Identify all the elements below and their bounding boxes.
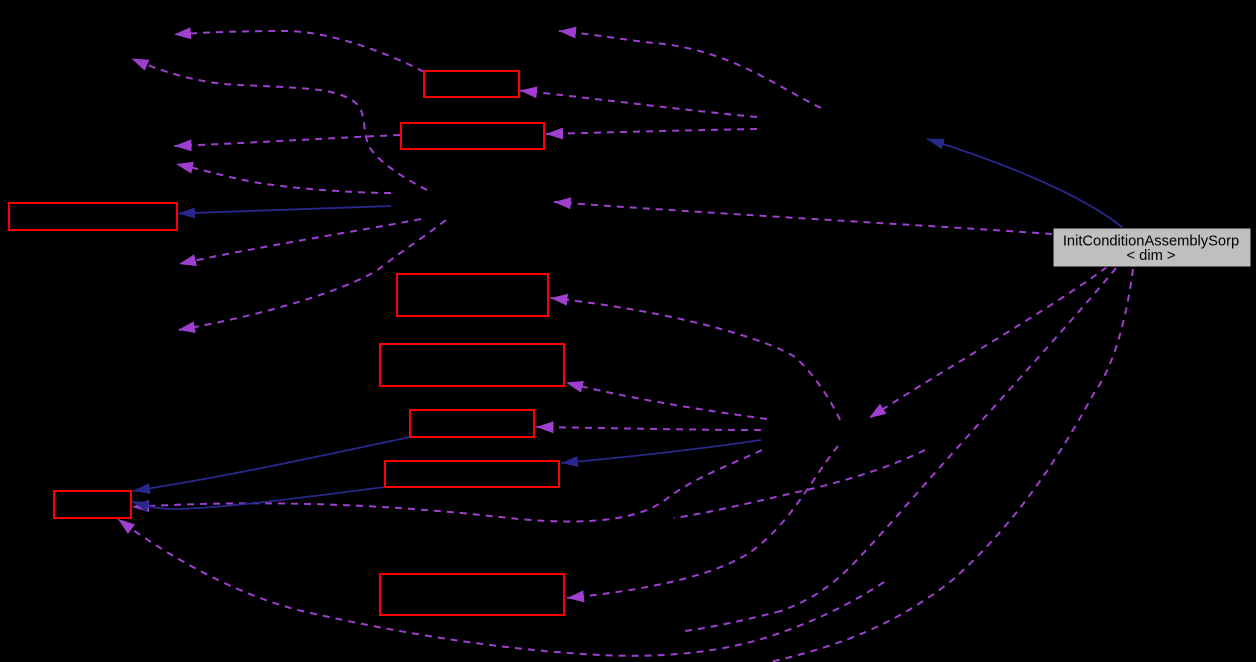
edge E2: center node to upper-left invisible node — [132, 59, 428, 191]
edge E17: blue inheritance box7 to box8 — [132, 487, 385, 509]
edge E1: box1 to top-left invisible node — [118, 31, 1133, 662]
node box2 — [401, 123, 544, 149]
edge E5: center node to lower-left invisible node — [179, 219, 421, 264]
edge E14: node Y to box6 — [537, 427, 762, 430]
svg-text:< dim >: < dim > — [1127, 248, 1176, 264]
edge blue: center node to box3 — [178, 206, 391, 214]
edge G3: gray node outer sweep to bottom — [770, 269, 1133, 662]
svg-text:InitConditionAssemblySorp: InitConditionAssemblySorp — [1063, 234, 1239, 250]
edge G2: gray node to node Z — [781, 268, 1116, 611]
edge E7: node X top to top invisible node — [559, 31, 821, 108]
edge E4: center node to left invisible node — [176, 164, 391, 193]
node box6 — [410, 410, 534, 437]
node box1 — [424, 71, 519, 97]
edge E8: node X to box1 — [520, 91, 757, 118]
edge E16: blue inheritance box6 to box8 — [133, 437, 410, 491]
edge E19: node Y to box9 — [567, 446, 838, 598]
edge E12: node Y to box4 — [551, 298, 841, 420]
edge E6: center node to bottom-left invisible node — [178, 220, 446, 330]
edge E9: node X to box2 — [546, 129, 757, 134]
node box8 — [54, 491, 131, 518]
edge B1: bottom sweep into box8 bottom — [118, 519, 884, 656]
node box9 — [380, 574, 564, 615]
node box4 — [397, 274, 548, 316]
edge E13: node Y to box5 — [566, 383, 767, 420]
node box3 — [9, 203, 177, 230]
edge E18c: node Y lower-right strand toward box8 — [674, 450, 925, 518]
edge E10: gray node to center invisible node — [554, 202, 1052, 234]
edge E3: box2 to left invisible node — [175, 135, 401, 146]
node box5 — [380, 344, 564, 386]
node box7 — [385, 461, 559, 487]
edge G2b: node Z tail to bottom left — [685, 611, 781, 631]
node InitConditionAssemblySorp — [1053, 228, 1251, 267]
edge G1: gray node to node Y — [869, 267, 1107, 418]
edge E11: blue inheritance gray node to node X — [132, 139, 1123, 509]
edge E18: node Y to box8 right — [132, 450, 762, 522]
edge E15: blue inheritance node Y to box7 — [561, 440, 761, 463]
